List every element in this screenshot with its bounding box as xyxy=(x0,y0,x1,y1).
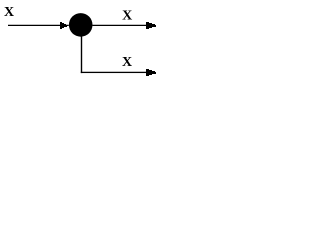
svg-text:X: X xyxy=(122,55,132,70)
svg-text:X: X xyxy=(122,8,132,23)
svg-text:X: X xyxy=(4,5,14,20)
